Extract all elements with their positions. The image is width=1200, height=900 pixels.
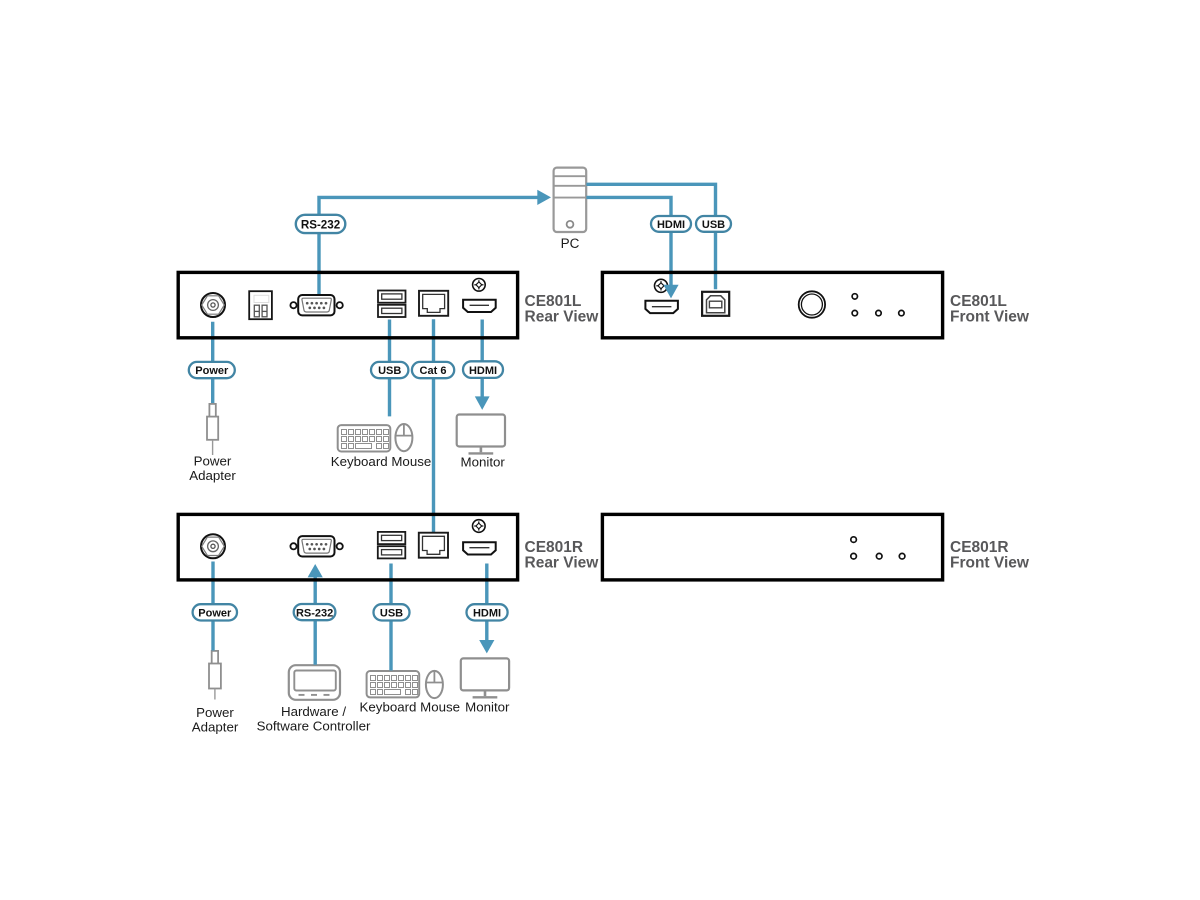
svg-text:Software Controller: Software Controller bbox=[257, 719, 371, 734]
label pill RS-232 (low) bbox=[294, 604, 336, 620]
label pill USB (mid) bbox=[371, 362, 408, 378]
svg-text:USB: USB bbox=[378, 365, 401, 377]
CE801R front: LED holes bbox=[851, 537, 905, 559]
label pill USB (low) bbox=[374, 604, 410, 620]
wire power (upper) bbox=[211, 322, 214, 403]
svg-text:Hardware /: Hardware / bbox=[281, 704, 346, 719]
svg-text:CE801L: CE801L bbox=[950, 293, 1007, 310]
svg-text:RS-232: RS-232 bbox=[296, 607, 333, 619]
CE801L front: LED holes bbox=[852, 294, 904, 316]
mouse icon (lower) bbox=[426, 671, 443, 698]
CE801L rear: RJ45 Cat6 port bbox=[419, 291, 448, 316]
PC tower icon bbox=[554, 168, 587, 232]
wire HDMI from PC to CE801L front HDMI bbox=[586, 197, 671, 286]
label pill Cat 6 (mid) bbox=[412, 362, 454, 378]
wire RS-232 from CE801L DB9 up to PC bbox=[319, 197, 538, 295]
device box CE801R rear view bbox=[178, 514, 517, 580]
label CE801R Rear View bbox=[525, 539, 600, 572]
CE801R rear: dual USB-A port bbox=[378, 532, 406, 559]
label CE801L Front View bbox=[950, 293, 1030, 326]
CE801R rear: power jack port bbox=[201, 534, 225, 558]
svg-text:Keyboard Mouse: Keyboard Mouse bbox=[331, 454, 432, 469]
svg-text:Front View: Front View bbox=[950, 555, 1030, 572]
CE801L rear: HDMI port with screw bbox=[463, 279, 496, 313]
wire USB to keyboard/mouse (lower) bbox=[389, 564, 392, 671]
svg-text:Power: Power bbox=[196, 705, 234, 720]
label Hardware / Software Controller bbox=[257, 704, 371, 734]
CE801R rear: HDMI port with screw bbox=[463, 520, 496, 555]
svg-text:CE801L: CE801L bbox=[525, 293, 582, 310]
hardware/software controller icon bbox=[289, 665, 340, 700]
label pill Power (mid) bbox=[189, 362, 235, 378]
arrowhead up into CE801R DB9 bbox=[308, 564, 323, 577]
svg-text:Front View: Front View bbox=[950, 309, 1030, 326]
monitor icon (lower) bbox=[461, 658, 509, 697]
wire HDMI to monitor (upper) bbox=[481, 320, 484, 398]
label pill HDMI (low) bbox=[467, 604, 508, 620]
svg-text:Rear View: Rear View bbox=[525, 309, 600, 326]
svg-text:Monitor: Monitor bbox=[461, 455, 506, 470]
wire power (lower) bbox=[211, 562, 214, 651]
mouse icon (upper) bbox=[395, 424, 412, 451]
svg-text:Adapter: Adapter bbox=[192, 720, 239, 735]
svg-text:Adapter: Adapter bbox=[189, 468, 236, 483]
svg-text:Power: Power bbox=[195, 365, 229, 377]
monitor icon (upper) bbox=[457, 415, 505, 454]
wire Cat6 from CE801L RJ45 down to CE801R RJ45 bbox=[432, 319, 435, 533]
CE801L rear: terminal block port bbox=[249, 291, 272, 319]
CE801L rear: dual USB-A port bbox=[378, 291, 406, 318]
label pill Power (low) bbox=[193, 604, 237, 620]
wire RS-232 from controller up to CE801R DB9 bbox=[314, 577, 317, 665]
arrowhead into monitor (upper) bbox=[475, 396, 490, 410]
label Power Adapter (lower) bbox=[192, 705, 239, 735]
label CE801L Rear View bbox=[525, 293, 600, 326]
label Power Adapter (upper) bbox=[189, 454, 236, 484]
CE801L rear: power jack port bbox=[201, 293, 225, 317]
label pill HDMI (mid) bbox=[463, 361, 503, 378]
keyboard icon (lower) bbox=[367, 671, 420, 697]
device box CE801L rear view bbox=[178, 272, 517, 337]
CE801L front: HDMI port with screw bbox=[645, 279, 678, 313]
svg-text:HDMI: HDMI bbox=[657, 219, 685, 231]
CE801L front: USB-B port bbox=[702, 292, 729, 316]
label CE801R Front View bbox=[950, 539, 1030, 572]
svg-text:Rear View: Rear View bbox=[525, 555, 600, 572]
CE801L front: pushbutton bbox=[799, 291, 825, 317]
power adapter icon (upper) bbox=[207, 404, 218, 455]
svg-text:RS-232: RS-232 bbox=[301, 218, 340, 231]
svg-text:HDMI: HDMI bbox=[473, 608, 501, 620]
svg-text:Monitor: Monitor bbox=[465, 700, 510, 715]
svg-text:CE801R: CE801R bbox=[525, 539, 584, 556]
wire USB to keyboard/mouse (upper) bbox=[388, 320, 391, 417]
CE801L rear: DB9 RS-232 port bbox=[290, 295, 342, 315]
keyboard icon (upper) bbox=[338, 425, 391, 451]
arrowhead into PC left side bbox=[537, 190, 551, 205]
svg-text:Cat 6: Cat 6 bbox=[420, 365, 447, 377]
svg-text:USB: USB bbox=[702, 219, 725, 231]
device box CE801R front view bbox=[602, 514, 942, 580]
svg-text:PC: PC bbox=[561, 236, 580, 251]
svg-text:CE801R: CE801R bbox=[950, 539, 1009, 556]
power adapter icon (lower) bbox=[209, 651, 221, 700]
wire USB from PC to CE801L front USB-B bbox=[586, 184, 715, 289]
svg-text:Power: Power bbox=[194, 454, 232, 469]
svg-text:Keyboard Mouse: Keyboard Mouse bbox=[360, 700, 461, 715]
svg-text:HDMI: HDMI bbox=[469, 365, 497, 377]
arrowhead into monitor (lower) bbox=[479, 640, 494, 653]
device box CE801L front view bbox=[602, 272, 942, 337]
label pill USB (top) bbox=[696, 216, 731, 232]
arrowhead onto CE801L front HDMI port bbox=[663, 285, 678, 299]
label pill HDMI (top) bbox=[651, 216, 691, 232]
svg-text:Power: Power bbox=[198, 608, 232, 620]
wire HDMI to monitor (lower) bbox=[485, 564, 488, 642]
label pill RS-232 (top) bbox=[296, 215, 346, 233]
CE801R rear: DB9 RS-232 port bbox=[290, 536, 342, 556]
svg-text:USB: USB bbox=[380, 608, 403, 620]
CE801R rear: RJ45 Cat6 port bbox=[419, 533, 448, 558]
